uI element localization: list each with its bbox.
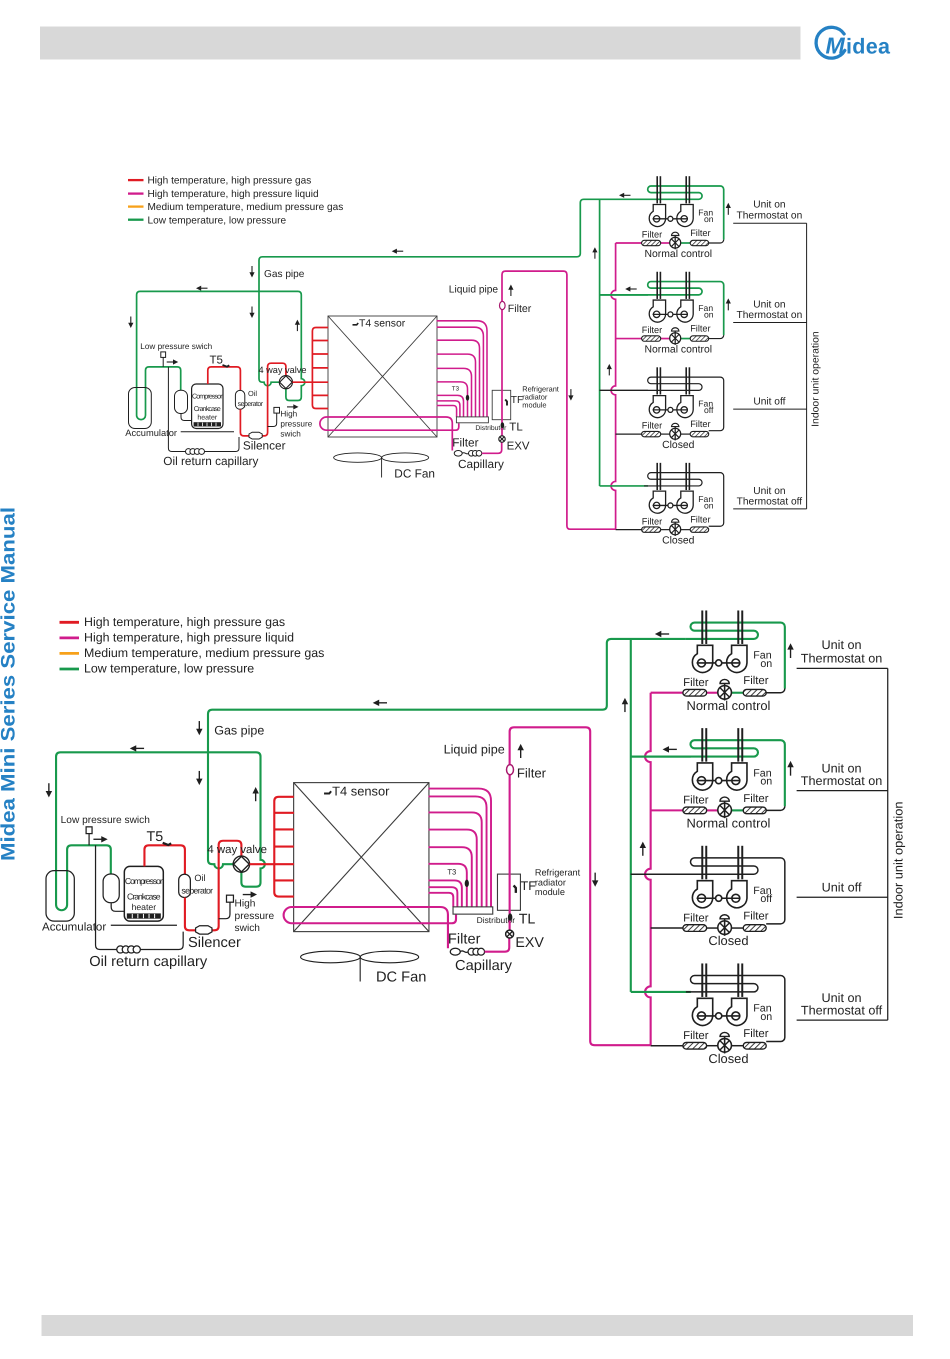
svg-text:Low pressure swich: Low pressure swich <box>61 814 151 825</box>
low pressure flow arrow right <box>101 836 107 842</box>
gas collector pipe <box>630 639 632 992</box>
discharge flow arrow right <box>293 404 298 409</box>
indoor unit 4 fan motor <box>668 503 673 508</box>
unit 3 state underline <box>733 408 806 410</box>
indoor unit 1 flow arrow up <box>787 643 793 649</box>
heat exchanger bottom liquid pass <box>284 907 456 948</box>
indoor unit 2 coil fins <box>701 728 703 761</box>
indoor unit 1 electronic expansion valve <box>670 237 681 248</box>
pipe 4-way valve to heat exchanger <box>250 863 294 865</box>
svg-text:Filter: Filter <box>517 766 547 781</box>
indoor unit 4 right fan <box>677 491 693 513</box>
svg-text:Silencer: Silencer <box>188 933 241 950</box>
unit 1 state underline <box>733 222 806 224</box>
svg-text:pressure: pressure <box>280 420 312 429</box>
indoor unit 2 left filter <box>642 336 661 341</box>
svg-text:heater: heater <box>197 414 218 422</box>
svg-text:Thermostat off: Thermostat off <box>801 1005 883 1019</box>
oil return capillary coil <box>186 449 192 455</box>
pipe silencer to 4-way valve <box>261 363 286 436</box>
svg-text:Unit off: Unit off <box>822 882 862 896</box>
gas collector flow arrow <box>622 698 628 704</box>
indoor unit 1 pipe to filter <box>766 689 785 693</box>
indoor unit 1 pipe filter-valve <box>707 692 718 694</box>
indoor unit operation bracket <box>887 668 889 1020</box>
svg-text:Normal control: Normal control <box>645 344 713 355</box>
unit 2 gas branch <box>631 756 691 758</box>
unit 4 gas branch <box>600 485 648 487</box>
unit 1 gas flow arrow <box>619 193 624 198</box>
T4 sensor mark <box>324 791 331 793</box>
svg-text:Compressor: Compressor <box>192 393 223 400</box>
indoor unit 3 pipe filter-valve <box>707 927 718 929</box>
svg-text:swich: swich <box>280 429 301 438</box>
indoor unit 1 left filter <box>683 689 707 696</box>
svg-text:4 way valve: 4 way valve <box>207 843 267 855</box>
svg-text:Filter: Filter <box>743 910 768 922</box>
indoor unit 2 left filter <box>683 807 707 814</box>
heat exchanger liquid circuit bundle <box>437 321 487 417</box>
indoor unit 3 fan motor link <box>653 409 688 411</box>
legend top <box>128 176 343 227</box>
accumulator vessel <box>46 871 74 921</box>
svg-text:Filter: Filter <box>642 421 662 431</box>
liquid distribution flow arrow <box>640 842 646 848</box>
svg-text:Filter: Filter <box>642 325 662 335</box>
svg-text:Low pressure swich: Low pressure swich <box>140 342 212 351</box>
footer bar <box>42 1315 914 1336</box>
suction flow arrow up near 4-way valve <box>252 787 258 793</box>
4-way valve <box>279 376 292 389</box>
indoor unit 1 coil fins <box>701 610 703 643</box>
indoor unit 3 right fan <box>727 881 747 908</box>
indoor unit 1 fan motor link <box>697 662 741 664</box>
discharge flow arrow right <box>251 891 257 897</box>
heat exchanger liquid circuit bundle <box>428 789 491 907</box>
svg-text:on: on <box>704 310 714 320</box>
svg-text:TL: TL <box>509 421 523 433</box>
TF sensor mark <box>505 400 507 406</box>
svg-text:Filter: Filter <box>683 1029 708 1041</box>
indoor unit 4 fan motor <box>716 1013 722 1019</box>
T3 sensor mark <box>466 395 469 401</box>
legend swatch #d01c8c <box>128 192 144 194</box>
indoor unit 4 fan motor link <box>697 1015 741 1017</box>
heat exchanger bottom liquid pass <box>320 417 459 451</box>
indoor unit 3 fan motor <box>668 407 673 412</box>
TL sensor mark <box>501 422 505 428</box>
compressor base line <box>111 924 177 926</box>
indoor unit 1 right filter <box>690 240 709 245</box>
suction pipe 4-way valve to accumulator and compressor <box>56 752 265 910</box>
high pressure switch stem <box>219 902 230 919</box>
svg-text:Closed: Closed <box>708 1053 748 1067</box>
svg-text:Filter: Filter <box>642 230 662 240</box>
compressor body <box>124 866 163 921</box>
silencer <box>249 432 262 439</box>
indoor unit 4 left filter <box>642 527 661 532</box>
svg-text:Oil return capillary: Oil return capillary <box>163 454 258 468</box>
svg-text:Crankcase: Crankcase <box>194 405 221 413</box>
svg-text:T4 sensor: T4 sensor <box>332 785 390 799</box>
svg-text:Liquid pipe: Liquid pipe <box>444 744 506 758</box>
svg-text:Filter: Filter <box>683 676 708 688</box>
gas pipe flow arrow left <box>373 700 379 706</box>
indoor unit 4 left filter <box>683 1042 707 1049</box>
accumulator vessel <box>129 388 152 429</box>
indoor unit 3 liquid branch pipe <box>651 927 683 929</box>
indoor unit 4 coil fins <box>701 963 703 996</box>
svg-text:Gas pipe: Gas pipe <box>214 725 265 739</box>
indoor unit 2 right fan <box>677 300 693 322</box>
unit 3 gas branch <box>631 873 691 875</box>
svg-text:idea: idea <box>846 34 891 58</box>
indoor unit 2 pipe valve-filter <box>680 338 690 340</box>
crankcase heater band <box>194 422 221 426</box>
indoor unit 3 pipe valve-filter <box>680 433 690 435</box>
indoor unit 3 right filter <box>690 431 709 436</box>
svg-text:Filter: Filter <box>452 436 478 450</box>
indoor unit 4 pipe filter-valve <box>707 1045 718 1047</box>
svg-text:on: on <box>760 775 772 787</box>
indoor unit 2 coil <box>600 282 724 336</box>
bottom refrigerant diagram <box>42 610 906 1066</box>
svg-text:Filter: Filter <box>743 674 768 686</box>
indoor unit 2 pipe filter-valve <box>661 338 670 340</box>
svg-text:T3: T3 <box>447 868 457 877</box>
svg-text:T5: T5 <box>210 355 223 367</box>
svg-text:Normal control: Normal control <box>687 818 771 832</box>
indoor unit 4 left fan <box>692 998 712 1025</box>
indoor unit 1 liquid branch pipe <box>651 692 683 694</box>
indoor unit 3 electronic expansion valve <box>670 428 681 439</box>
legend swatch #f7a11a <box>60 652 80 655</box>
svg-text:off: off <box>760 892 772 904</box>
suction flow arrow left <box>196 286 201 291</box>
svg-text:High temperature, high pressur: High temperature, high pressure gas <box>148 176 312 187</box>
unit 2 gas flow arrow <box>625 286 630 291</box>
svg-text:High: High <box>280 410 297 419</box>
EXV electronic expansion valve <box>506 930 514 938</box>
distributor <box>453 907 493 914</box>
svg-text:Silencer: Silencer <box>243 438 286 452</box>
pipe oil separator to silencer <box>240 409 250 436</box>
svg-text:Low temperature, low pressure: Low temperature, low pressure <box>84 662 254 676</box>
svg-text:EXV: EXV <box>507 441 530 453</box>
svg-text:module: module <box>535 887 565 898</box>
indoor unit 2 left fan <box>649 300 665 322</box>
indoor unit 1 right fan <box>677 205 693 227</box>
svg-text:Oil: Oil <box>248 389 257 398</box>
legend swatch #e01b23 <box>128 179 144 181</box>
suction flow arrow up near 4-way valve <box>295 320 300 325</box>
unit 1 state underline <box>797 667 888 669</box>
legend swatch #18994c <box>60 668 80 671</box>
indoor unit 4 electronic expansion valve <box>670 524 681 535</box>
indoor unit 3 pipe filter-valve <box>661 433 670 435</box>
indoor unit 2 coil fins <box>656 272 658 299</box>
svg-text:Gas pipe: Gas pipe <box>264 269 305 280</box>
svg-text:Liquid pipe: Liquid pipe <box>449 284 499 295</box>
liquid pipe through module and filter <box>502 271 616 529</box>
suction flow arrow down to accumulator <box>46 791 52 797</box>
unit 4 gas branch <box>631 991 691 993</box>
svg-text:High temperature, high pressur: High temperature, high pressure liquid <box>84 631 294 645</box>
liquid filter (strainer) <box>450 948 460 955</box>
indoor unit 3 left fan <box>649 396 665 418</box>
4-way valve <box>233 856 249 872</box>
low pressure flow arrow right <box>173 359 178 364</box>
svg-text:Medium temperature, medium pre: Medium temperature, medium pressure gas <box>84 646 324 660</box>
svg-text:Filter: Filter <box>743 1027 768 1039</box>
indoor unit 1 left fan <box>692 645 712 672</box>
svg-text:EXV: EXV <box>515 936 544 951</box>
indoor unit 2 pipe filter-valve <box>707 809 718 811</box>
gas pipe flow arrow down 1 <box>249 272 254 277</box>
indoor unit 1 pipe valve-filter <box>680 242 690 244</box>
gas collector pipe <box>599 199 601 486</box>
indoor unit 4 pipe valve-filter <box>731 1045 743 1047</box>
svg-text:Filter: Filter <box>743 792 768 804</box>
indoor unit 1 fan motor link <box>653 218 688 220</box>
svg-text:Unit on: Unit on <box>753 200 785 211</box>
svg-text:Unit on: Unit on <box>822 992 862 1006</box>
indoor unit 2 left fan <box>692 763 712 790</box>
TL sensor mark <box>508 913 512 920</box>
svg-text:DC Fan: DC Fan <box>394 467 435 481</box>
indoor unit 1 coil fins <box>656 176 658 203</box>
svg-text:pressure: pressure <box>235 910 275 921</box>
svg-text:Oil return capillary: Oil return capillary <box>89 952 207 969</box>
suction pipe 4-way valve to accumulator and compressor <box>137 291 305 419</box>
wire vessel to compressor <box>181 414 192 421</box>
indoor unit 4 right fan <box>727 998 747 1025</box>
capillary coil <box>460 951 468 953</box>
high pressure switch stem <box>268 413 277 426</box>
liquid pipe through module and filter <box>510 727 651 1045</box>
svg-text:T3: T3 <box>452 386 460 393</box>
svg-text:Unit on: Unit on <box>822 762 862 776</box>
gas pipe from indoor units to 4-way valve <box>208 639 686 869</box>
indoor unit 3 coil fins <box>656 367 658 394</box>
indoor unit 3 coil <box>631 858 785 924</box>
svg-text:T4 sensor: T4 sensor <box>359 318 406 329</box>
low pressure switch stem <box>88 834 90 846</box>
low pressure switch <box>161 352 166 358</box>
svg-text:Compressor: Compressor <box>125 878 164 887</box>
svg-text:TF: TF <box>521 880 536 894</box>
T5 sensor mark <box>223 365 230 367</box>
svg-text:High temperature, high pressur: High temperature, high pressure gas <box>84 615 285 629</box>
indoor unit 1 coil <box>686 623 785 689</box>
svg-text:Low temperature, low pressure: Low temperature, low pressure <box>148 215 287 226</box>
gas collector flow arrow <box>592 247 597 252</box>
indoor unit 2 electronic expansion valve <box>718 803 732 817</box>
compressor base line <box>181 431 234 433</box>
pipe oil separator to silencer <box>185 898 197 931</box>
oil separator vessel <box>235 390 244 409</box>
svg-text:on: on <box>704 501 714 511</box>
liquid flow arrow down to indoor units <box>592 880 598 886</box>
svg-text:Oil: Oil <box>194 873 206 884</box>
indoor unit 2 liquid branch pipe <box>651 809 683 811</box>
unit 2 state underline <box>797 790 888 792</box>
wire vessel to compressor <box>111 903 124 912</box>
indoor unit 3 fan motor <box>716 895 722 901</box>
indoor unit 1 right fan <box>727 645 747 672</box>
svg-text:DC Fan: DC Fan <box>376 968 426 985</box>
discharge pipe compressor to oil separator <box>144 845 184 874</box>
header bar <box>40 27 801 60</box>
heat exchanger red circuit <box>274 797 294 897</box>
unit 2 gas flow arrow <box>663 746 669 752</box>
indoor unit 2 liquid branch pipe <box>616 338 642 340</box>
high pressure switch <box>274 407 280 413</box>
indoor unit 2 pipe to filter <box>709 335 724 338</box>
DC fan shaft <box>359 957 361 982</box>
indoor unit 4 right filter <box>743 1042 766 1049</box>
svg-text:Accumulator: Accumulator <box>125 428 177 438</box>
svg-text:High: High <box>235 898 256 909</box>
unit 2 gas branch <box>600 294 648 296</box>
svg-text:module: module <box>522 400 546 409</box>
svg-text:Medium temperature, medium pre: Medium temperature, medium pressure gas <box>148 202 344 213</box>
unit 3 state underline <box>797 896 888 898</box>
gas pipe from indoor units to 4-way valve <box>259 199 644 385</box>
indoor unit 3 right filter <box>743 925 766 932</box>
pipe capillary to EXV <box>485 938 510 952</box>
distributor <box>456 417 488 423</box>
suction inlet vessel <box>175 390 188 413</box>
indoor unit 3 left filter <box>683 925 707 932</box>
indoor unit 1 fan motor <box>716 660 722 666</box>
indoor unit 4 liquid branch pipe <box>651 1045 683 1047</box>
DC fan shaft <box>381 458 383 478</box>
unit 4 state underline <box>797 1019 888 1021</box>
svg-text:Filter: Filter <box>690 324 710 334</box>
svg-text:Unit on: Unit on <box>822 639 862 653</box>
refrigerant radiator module <box>497 874 520 910</box>
svg-text:M: M <box>826 32 846 58</box>
indoor unit 1 fan motor <box>668 216 673 221</box>
indoor unit 1 pipe valve-filter <box>731 692 743 694</box>
outdoor heat exchanger <box>294 783 429 932</box>
indoor unit 4 coil <box>686 976 785 1042</box>
T5 sensor mark <box>163 843 171 845</box>
indoor unit 3 liquid branch pipe <box>616 433 642 435</box>
svg-text:Closed: Closed <box>708 935 748 949</box>
outdoor heat exchanger <box>328 316 437 437</box>
svg-text:on: on <box>704 214 714 224</box>
svg-text:Indoor unit operation: Indoor unit operation <box>811 331 822 427</box>
suction flow arrow down to accumulator <box>128 323 133 328</box>
indoor unit operation bracket <box>806 223 808 509</box>
indoor unit 2 right fan <box>727 763 747 790</box>
svg-text:Capillary: Capillary <box>458 457 504 471</box>
svg-text:Normal control: Normal control <box>645 249 713 260</box>
svg-text:on: on <box>760 657 772 669</box>
indoor unit 2 fan motor link <box>697 780 741 782</box>
DC fan blades <box>334 453 382 462</box>
oil return capillary line <box>168 367 239 452</box>
gas pipe flow arrow left <box>392 249 397 254</box>
svg-text:swich: swich <box>235 922 261 933</box>
indoor unit 1 pipe to filter <box>709 240 724 243</box>
svg-text:Thermostat on: Thermostat on <box>801 653 883 667</box>
indoor unit 2 flow arrow up <box>787 761 793 767</box>
liquid flow arrow up <box>517 744 523 750</box>
legend swatch #f7a11a <box>128 205 144 207</box>
gas pipe flow arrow down 2 <box>196 779 202 785</box>
indoor unit 4 liquid branch pipe <box>616 529 642 531</box>
indoor unit 1 coil <box>644 186 724 240</box>
legend swatch #e01b23 <box>60 621 80 624</box>
discharge pipe compressor to oil separator <box>208 367 241 391</box>
unit 3 gas branch <box>600 389 648 391</box>
low pressure switch <box>86 827 92 834</box>
svg-text:Thermostat on: Thermostat on <box>801 775 883 789</box>
legend swatch #18994c <box>128 219 144 221</box>
indoor unit 4 fan motor link <box>653 504 688 506</box>
refrigerant radiator module <box>492 390 511 419</box>
indoor unit 1 right filter <box>743 689 766 696</box>
indoor unit 3 coil <box>600 377 724 431</box>
capillary coil <box>462 453 468 454</box>
svg-text:T5: T5 <box>147 830 164 845</box>
indoor unit 2 pipe to filter <box>766 806 785 810</box>
indoor unit 2 right filter <box>743 807 766 814</box>
svg-text:Filter: Filter <box>508 303 532 315</box>
indoor unit 4 coil fins <box>656 463 658 490</box>
svg-text:Unit off: Unit off <box>753 397 785 408</box>
indoor unit 2 coil <box>631 740 785 806</box>
pipe 4-way valve to heat exchanger <box>293 381 329 383</box>
indoor unit 4 electronic expansion valve <box>718 1039 732 1053</box>
Midea logo circle <box>816 27 845 58</box>
unit 4 state underline <box>733 508 806 510</box>
indoor unit 1 liquid branch pipe <box>616 242 642 244</box>
high pressure switch <box>226 895 233 902</box>
crankcase heater band <box>127 913 161 918</box>
indoor unit 2 fan motor <box>668 312 673 317</box>
svg-text:Closed: Closed <box>662 440 695 451</box>
indoor unit 1 electronic expansion valve <box>718 686 732 700</box>
liquid filter (strainer) <box>454 451 462 457</box>
svg-text:Indoor unit operation: Indoor unit operation <box>893 802 907 920</box>
svg-text:TL: TL <box>519 912 536 927</box>
heat exchanger red circuit <box>312 328 328 409</box>
pipe capillary to EXV <box>482 442 502 453</box>
liquid distribution pipe with jumps <box>611 243 615 529</box>
liquid flow arrow up <box>508 285 513 290</box>
TF sensor mark <box>514 885 516 892</box>
unit 2 state underline <box>733 322 806 324</box>
indoor unit 2 pipe valve-filter <box>731 809 743 811</box>
indoor unit 2 fan motor <box>716 778 722 784</box>
svg-text:Midea Mini Series Service Manu: Midea Mini Series Service Manual <box>0 507 20 861</box>
indoor unit 2 flow arrow up <box>726 298 731 303</box>
svg-text:Thermostat on: Thermostat on <box>737 310 803 321</box>
indoor unit 3 pipe valve-filter <box>731 927 743 929</box>
svg-text:Normal control: Normal control <box>687 700 771 714</box>
svg-text:4 way valve: 4 way valve <box>259 365 307 375</box>
indoor unit 4 pipe valve-filter <box>680 529 690 531</box>
liquid line filter <box>507 765 514 775</box>
svg-text:Crankcase: Crankcase <box>127 892 161 902</box>
svg-text:Thermostat off: Thermostat off <box>737 496 803 507</box>
indoor unit 4 coil <box>644 473 724 527</box>
oil return capillary coil <box>117 946 124 953</box>
